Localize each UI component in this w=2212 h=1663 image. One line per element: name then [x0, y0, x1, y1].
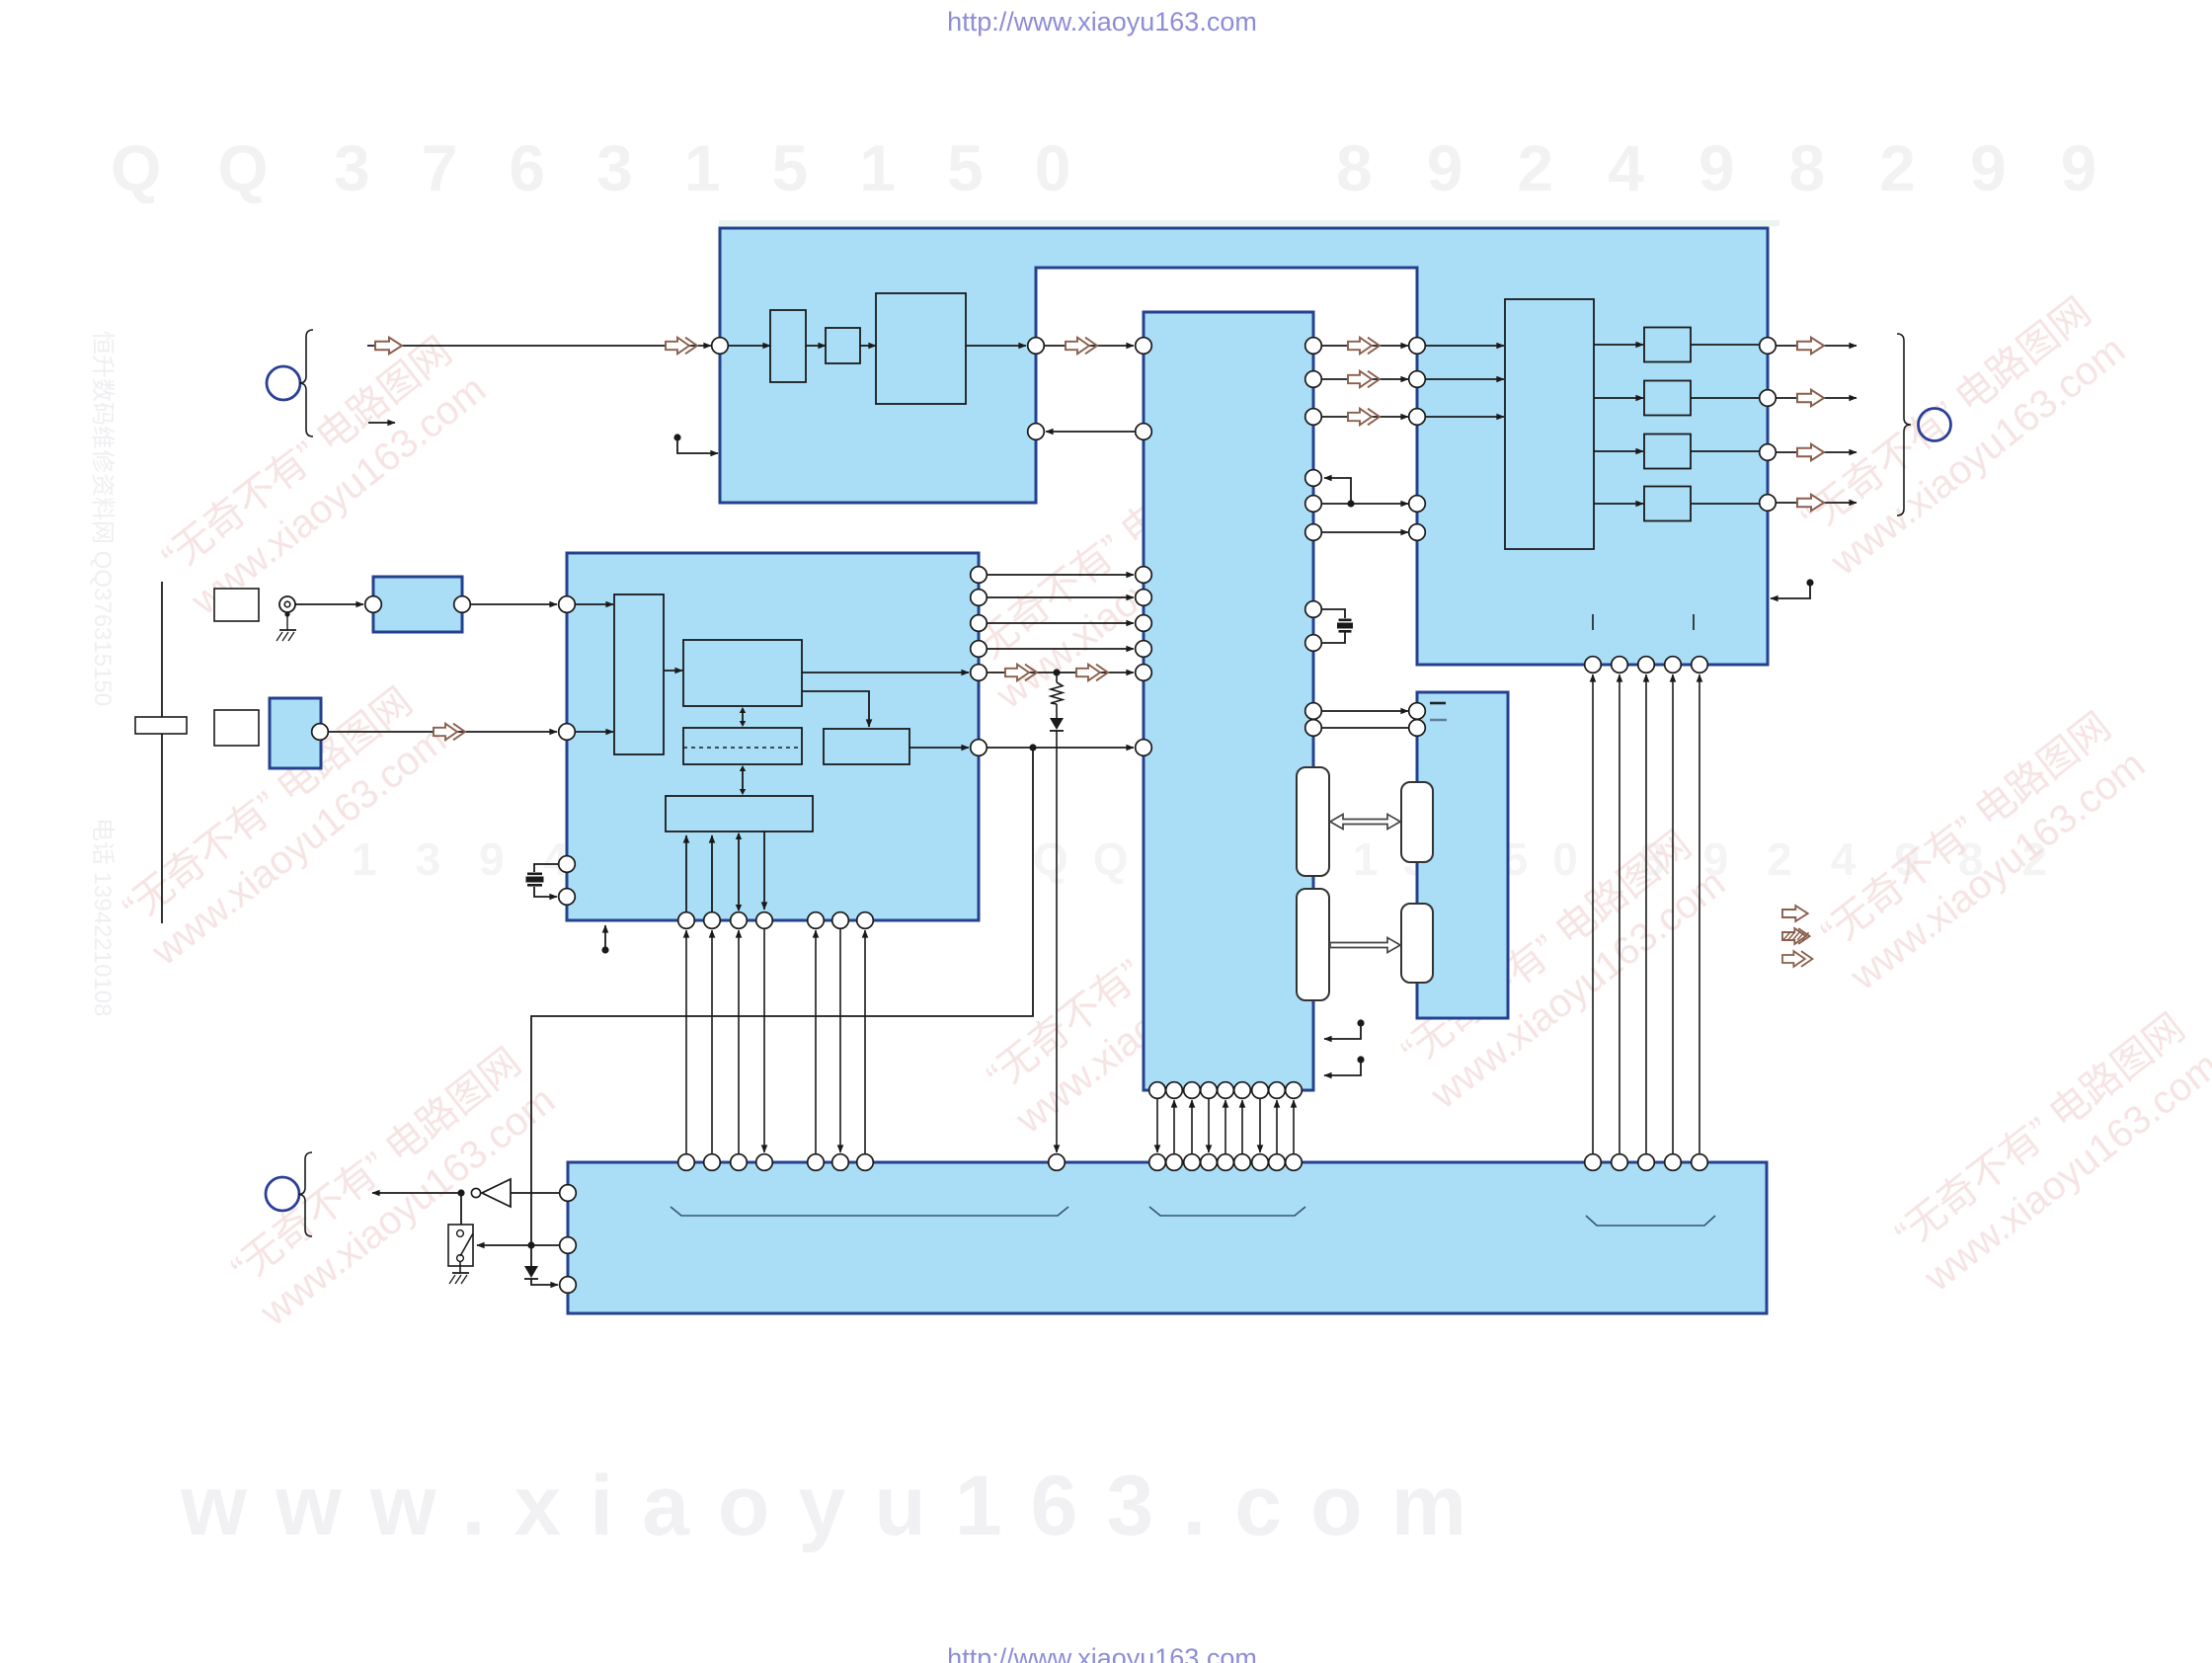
- wire stage3 to U1 output pin: [966, 345, 1026, 347]
- wire U4 to U3 row y422: [1321, 416, 1408, 418]
- pin node (1435,539): [1409, 524, 1426, 541]
- open arrow row y350: [1066, 338, 1097, 355]
- block U5 memory (right of DSP): [1417, 692, 1508, 1018]
- pin node (1224,1104): [1201, 1082, 1218, 1099]
- pin node (1330,617): [1305, 601, 1322, 618]
- bus line U4-U6 col x1276: [1259, 1099, 1261, 1152]
- pin node (1330,720): [1305, 703, 1322, 720]
- bus line U2-U6 col x826: [815, 930, 817, 1153]
- switch SW1 blade: [460, 1233, 473, 1256]
- wire U4 to U3 row y510: [1321, 503, 1408, 505]
- pin node (1241,1104): [1218, 1082, 1234, 1099]
- U3 internal DAC: [1505, 299, 1594, 549]
- pin node (1435,422): [1409, 409, 1426, 426]
- pin node (1158,757): [1136, 740, 1152, 756]
- pin node (575,1208): [560, 1185, 577, 1202]
- pin node (1694,1177): [1665, 1154, 1682, 1171]
- bus line U4-U6 col x1258: [1241, 1100, 1243, 1153]
- U1 internal stage 3: [876, 293, 966, 404]
- U5 bus pill 2: [1401, 904, 1433, 983]
- bus line U6-U3 col x1613: [1592, 674, 1594, 1153]
- pin node (1790,458): [1760, 444, 1777, 461]
- pin node (1276,1177): [1252, 1154, 1269, 1171]
- wire U4 to U3 row y539: [1321, 531, 1408, 533]
- power node feeding U4 (lower): [1357, 1056, 1364, 1063]
- diode D2: [530, 1245, 532, 1266]
- pin node (851,932): [832, 912, 849, 929]
- pin node (1694,673): [1665, 657, 1682, 673]
- pin node (378,612): [365, 596, 382, 613]
- pin node (991,757): [971, 740, 987, 756]
- wire U3 pin to DAC row y422: [1426, 416, 1504, 418]
- pin node (1640,1177): [1612, 1154, 1628, 1171]
- pin node (991,605): [971, 590, 987, 606]
- pin node (1330,422): [1305, 409, 1322, 426]
- pin node (851,1177): [832, 1154, 849, 1171]
- wire U4 to U5 row y737: [1321, 727, 1409, 729]
- pin node (721,932): [704, 912, 721, 929]
- connector ring P1 to pickup: [267, 366, 300, 400]
- pin node (1189,1104): [1166, 1082, 1183, 1099]
- U3 output buffer 1: [1644, 328, 1691, 362]
- wire DAC to buffer row y457: [1594, 450, 1643, 452]
- bus line U4-U6 col x1172: [1156, 1099, 1158, 1152]
- wire RF input line to U1: [367, 345, 711, 347]
- diode D1 (to U6): [1056, 704, 1058, 718]
- pin node (1276,1104): [1252, 1082, 1269, 1099]
- bus line U4-U6 col x1293: [1276, 1100, 1278, 1153]
- pin node (1790,509): [1760, 495, 1777, 512]
- wire U3 pin to DAC row y350: [1426, 345, 1504, 347]
- brace for connector P1: [299, 330, 313, 436]
- connector ring P2: [1919, 409, 1951, 441]
- wire node to switch: [460, 1193, 462, 1225]
- U5 bus pill 1: [1401, 782, 1433, 862]
- block U1 RF amp + servo (top-left) merged with U3 video/audio out (top-right) - L-bridge shape: [720, 228, 1768, 665]
- pale green highlight band above top block: [719, 220, 1779, 226]
- pin node (575,1301): [560, 1277, 577, 1294]
- crystal Y1 wiring bottom: [534, 887, 557, 897]
- RCA jack ground junction: [284, 611, 289, 616]
- audio/video output line y458: [1777, 451, 1856, 453]
- pin node (695,932): [678, 912, 695, 929]
- bus line U2-U6 col x851: [839, 929, 841, 1152]
- inverter U7 triangle: [482, 1179, 511, 1207]
- pin node (991,582): [971, 567, 987, 584]
- power feed node for U3: [1806, 579, 1813, 586]
- pin node (1435,510): [1409, 496, 1426, 513]
- wire RCA to ground: [286, 614, 288, 630]
- watermark pink rotated stamps: [112, 287, 2212, 1335]
- bus RAM-port vertical double arrow: [742, 767, 744, 793]
- pin node (1310,1104): [1286, 1082, 1303, 1099]
- junction node row510: [1347, 500, 1354, 507]
- pin node (1258,1177): [1234, 1154, 1251, 1171]
- wire U2 to U4 row y681 with open arrows: [987, 672, 1134, 673]
- wire inverter output to P3: [372, 1192, 459, 1194]
- crystal Y1 body: [527, 873, 542, 876]
- pin node (1330,651): [1305, 635, 1322, 652]
- bus line U2-U6 col x695: [685, 930, 687, 1153]
- wire DAC to buffer row y510: [1594, 503, 1643, 505]
- pin node (574,612): [559, 596, 576, 613]
- wire port block to pin col695: [685, 835, 687, 911]
- wire U2 to U4 row y757: [987, 747, 1134, 749]
- pin node (1158,605): [1136, 590, 1152, 606]
- chassis ground symbol GND2: [452, 1272, 469, 1274]
- pin node (1158,437): [1136, 424, 1152, 440]
- pin node (1330,510): [1305, 496, 1322, 513]
- open arrow output y509: [1797, 495, 1824, 512]
- bus line U6-U3 col x1640: [1619, 674, 1620, 1153]
- wire U2 to U4 row y605: [987, 596, 1134, 598]
- wire U2 pin in1 to register: [576, 603, 613, 605]
- U1 internal stage 1: [770, 310, 806, 382]
- svg-text:www.xiaoyu163.com: www.xiaoyu163.com: [180, 1459, 1495, 1553]
- pin node (1330,384): [1305, 371, 1322, 388]
- pin node (1293,1177): [1269, 1154, 1286, 1171]
- pin node (721,1177): [704, 1154, 721, 1171]
- U4 bus pill 1: [1297, 767, 1329, 876]
- pin node (1207,1177): [1184, 1154, 1201, 1171]
- pin node (1158,582): [1136, 567, 1152, 584]
- legend arrow type 3 chevron: [1782, 951, 1812, 967]
- block X1 input filter box: [373, 577, 462, 632]
- watermark top gray row QQ digits: [111, 131, 2151, 204]
- wire diode to U6 top pin: [1056, 731, 1058, 1152]
- bus line U6-U3 col x1667: [1645, 674, 1647, 1153]
- watermark left vertical gray text: [89, 331, 116, 1017]
- pin node (1435,384): [1409, 371, 1426, 388]
- pin node (324,741): [312, 724, 329, 741]
- pin node (1293,1104): [1269, 1082, 1286, 1099]
- pin node (1330,539): [1305, 524, 1322, 541]
- bus line U4-U6 col x1310: [1293, 1100, 1295, 1153]
- bus CPU-RAM vertical double arrow: [742, 709, 744, 725]
- pin node (876,1177): [857, 1154, 874, 1171]
- pin node (774,932): [756, 912, 773, 929]
- pin node (1435,737): [1409, 720, 1426, 737]
- pin node (1189,1177): [1166, 1154, 1183, 1171]
- pin node (1667,673): [1638, 657, 1655, 673]
- tick mark above U3 bottom pin group left: [1592, 614, 1594, 630]
- wire port block to pin col721: [711, 835, 713, 911]
- bus line U6-U3 col x1694: [1672, 674, 1674, 1153]
- block U4 DSP / decoder (center tall): [1144, 312, 1313, 1090]
- crystal Y2 wiring bottom: [1322, 633, 1345, 644]
- bus line U2-U6 col x774: [763, 929, 765, 1152]
- U2 internal CPU core: [683, 640, 802, 706]
- bus line U4-U6 col x1241: [1224, 1100, 1226, 1153]
- audio/video output line y403: [1777, 397, 1856, 399]
- pin node (1158,631): [1136, 615, 1152, 632]
- svg-text:892498299: 892498299: [1336, 131, 2151, 204]
- pin node (1172,1104): [1149, 1082, 1166, 1099]
- bus line U4-U6 col x1207: [1191, 1100, 1193, 1153]
- pin node (991,681): [971, 665, 987, 681]
- U2 power stub at bottom-left: [604, 925, 606, 950]
- wire X1 to U2 pin: [471, 603, 557, 605]
- U6 group bracket 2: [1149, 1207, 1305, 1216]
- wire U4 to U1 return (row y437): [1046, 431, 1151, 433]
- pin node (1613,1177): [1585, 1154, 1602, 1171]
- wire buffer to U3 out pin row y510: [1691, 503, 1759, 505]
- pin node (575,1261): [560, 1237, 577, 1254]
- U2 internal RAM with partition: [683, 728, 802, 764]
- bus line U6-U3 col x1721: [1698, 674, 1700, 1153]
- pin node (876,932): [857, 912, 874, 929]
- U6 group bracket 3: [1586, 1216, 1715, 1226]
- short stub arrow from P1: [368, 422, 395, 424]
- brace for output connector P2: [1897, 334, 1911, 515]
- U1 internal stage 2: [826, 328, 860, 363]
- power feed node for U1: [673, 434, 680, 440]
- chassis ground symbol GND1: [279, 629, 296, 631]
- tick mark above U3 bottom pin group right: [1693, 614, 1695, 630]
- U3 output buffer 4: [1644, 487, 1691, 521]
- wire buffer to U3 out pin row y349: [1691, 344, 1759, 346]
- pin node (1158,681): [1136, 665, 1152, 681]
- wire U2 pin in2 to register: [576, 731, 613, 733]
- disc spindle shaft line: [161, 582, 163, 923]
- pin node (695,1177): [678, 1154, 695, 1171]
- svg-text:恒升数码维修资料网 QQ376315150: 恒升数码维修资料网 QQ376315150: [89, 331, 116, 706]
- wire port block to pin col748 (bidir): [738, 833, 740, 911]
- wire U1 pin1 to stage1: [729, 345, 770, 347]
- U3 output buffer 3: [1644, 435, 1691, 469]
- pin node (1049,350): [1028, 338, 1045, 355]
- block U2 system control MCU (left-middle): [567, 553, 979, 920]
- wire buffer to U3 out pin row y457: [1691, 450, 1759, 452]
- pin node (1667,1177): [1638, 1154, 1655, 1171]
- wire U6 pin1 to inverter: [511, 1192, 559, 1194]
- pin node (1241,1177): [1218, 1154, 1234, 1171]
- open arrow RF in: [375, 338, 402, 355]
- pin node (1435,720): [1409, 703, 1426, 720]
- U4 bus pill 2: [1297, 889, 1329, 1000]
- pin node (1172,1177): [1149, 1154, 1166, 1171]
- bus single open arrow U4-U5: [1330, 938, 1400, 953]
- pin node (748,1177): [731, 1154, 748, 1171]
- U2 internal input register: [614, 594, 664, 754]
- legend arrow type 2 hatched: [1782, 928, 1810, 944]
- wire return into U4 pin y484: [1324, 478, 1351, 504]
- crystal Y2 wiring top: [1322, 609, 1345, 618]
- RCA jack J1 center pin: [284, 601, 290, 607]
- wire DAC to buffer row y349: [1594, 344, 1643, 346]
- pin node (1330,350): [1305, 338, 1322, 355]
- pin node (1613,673): [1585, 657, 1602, 673]
- wire X2 to U2 pin: [329, 731, 557, 733]
- U5 label dash dark: [1430, 702, 1446, 705]
- pin node (748,932): [731, 912, 748, 929]
- crystal Y2 body: [1339, 619, 1352, 622]
- wire U1 out to U4 in (row y350): [1045, 345, 1134, 347]
- pin node (729,350): [712, 338, 729, 355]
- brace for connector P3: [298, 1152, 312, 1236]
- wire U4 to U3 row y384: [1321, 378, 1408, 380]
- open arrow output y403: [1797, 390, 1824, 407]
- pin node (1158,657): [1136, 641, 1152, 658]
- wire U4 to U3 row y350: [1321, 345, 1408, 347]
- pin node (774,1177): [756, 1154, 773, 1171]
- wire CPU core to PLL elbow: [802, 691, 869, 727]
- crystal Y1 wiring top: [534, 864, 558, 872]
- switch SW1 body: [448, 1225, 473, 1266]
- wire port block to pin col774 (down): [763, 831, 765, 910]
- pin node (1158,350): [1136, 338, 1152, 355]
- wire U4 to U5 row y720: [1321, 710, 1408, 712]
- U5 label dash blue: [1430, 719, 1447, 722]
- pin node (1640,673): [1612, 657, 1628, 673]
- junction node at switch tee: [527, 1241, 534, 1248]
- junction node inverter output: [457, 1189, 464, 1196]
- white label box CN1: [214, 589, 259, 621]
- bus line U2-U6 col x721: [711, 930, 713, 1153]
- disc platter rectangle: [135, 717, 187, 734]
- pin node (574,741): [559, 724, 576, 741]
- pin node (1207,1104): [1184, 1082, 1201, 1099]
- resistor R1: [1056, 673, 1058, 682]
- wire diode D2 to U6 pin3: [531, 1279, 558, 1285]
- pin node (574,875): [559, 856, 576, 873]
- pin node (991,631): [971, 615, 987, 632]
- U6 group bracket 1: [671, 1207, 1068, 1216]
- pin node (1049,437): [1028, 424, 1045, 440]
- open arrow output y458: [1797, 444, 1824, 461]
- U3 output buffer 2: [1644, 381, 1691, 416]
- bus line U2-U6 col x748: [738, 930, 740, 1153]
- open arrow RF before U1: [666, 338, 697, 355]
- pin node (1224,1177): [1201, 1154, 1218, 1171]
- watermark middle gray digits row: [352, 833, 2086, 885]
- U2 internal PLL block: [824, 729, 909, 764]
- inverter U7 bubble: [471, 1188, 480, 1197]
- wire stage1 to stage2: [806, 345, 826, 347]
- pin node (991,657): [971, 641, 987, 658]
- RCA jack J1 outer ring: [279, 596, 295, 612]
- bus line U4-U6 col x1189: [1173, 1100, 1175, 1153]
- wire CPU core to U2 out pin y681: [802, 672, 969, 673]
- svg-text:http://www.xiaoyu163.com: http://www.xiaoyu163.com: [947, 7, 1257, 37]
- pin node (1790,350): [1760, 338, 1777, 355]
- svg-text:http://www.xiaoyu163.com: http://www.xiaoyu163.com: [947, 1643, 1257, 1663]
- block X2 sensor box: [270, 698, 321, 768]
- U2 internal port block: [666, 796, 813, 831]
- junction node on y757 line: [1029, 744, 1036, 751]
- block U6 power supply (bottom): [568, 1162, 1767, 1313]
- wire PLL to U2 out pin y757: [909, 747, 969, 749]
- wire U2 to U4 row y631: [987, 622, 1134, 624]
- junction node on y681 line: [1053, 669, 1060, 675]
- connector ring P3 power: [266, 1177, 299, 1211]
- pin node (468,612): [454, 596, 471, 613]
- wire stage2 to stage3: [860, 345, 876, 347]
- wire branch from node757 down-left to switch area: [531, 748, 1033, 1245]
- pin node (826,932): [808, 912, 825, 929]
- wire buffer to U3 out pin row y403: [1691, 397, 1759, 399]
- wire switch to ground: [459, 1261, 461, 1273]
- power node feeding U4 (upper): [1357, 1019, 1364, 1026]
- white label box CN2: [214, 710, 259, 746]
- pin node (1721,1177): [1692, 1154, 1708, 1171]
- pin node (1070,1177): [1049, 1154, 1066, 1171]
- pin node (1330,737): [1305, 720, 1322, 737]
- pin node (1721,673): [1692, 657, 1708, 673]
- pin node (1258,1104): [1234, 1082, 1251, 1099]
- pin node (1790,403): [1760, 390, 1777, 407]
- bus double open arrow U4-U5: [1330, 815, 1400, 830]
- bus line U4-U6 col x1224: [1208, 1099, 1210, 1152]
- wire RCA to X1: [295, 603, 363, 605]
- svg-text:电话 13942210108: 电话 13942210108: [89, 818, 116, 1017]
- open arrow output y350: [1797, 338, 1824, 355]
- wire U6 pin2 to switch: [477, 1244, 559, 1246]
- wire U3 pin to DAC row y384: [1426, 378, 1504, 380]
- svg-text:376315150: 376315150: [334, 131, 1122, 204]
- pin node (574,908): [559, 889, 576, 906]
- pin node (1330,484): [1305, 470, 1322, 487]
- open arrow X2 line: [434, 724, 465, 741]
- wire U2 to U4 row y582: [987, 574, 1134, 576]
- pin node (826,1177): [808, 1154, 825, 1171]
- pin node (1310,1177): [1286, 1154, 1303, 1171]
- pin node (1435,350): [1409, 338, 1426, 355]
- wire DAC to buffer row y403: [1594, 397, 1643, 399]
- audio/video output line y509: [1777, 502, 1856, 504]
- audio/video output line y350: [1777, 345, 1856, 347]
- svg-text:QQ: QQ: [111, 131, 325, 204]
- wire register to CPU core: [664, 670, 682, 672]
- wire U2 to U4 row y657: [987, 648, 1134, 650]
- bus line U2-U6 col x876: [864, 930, 866, 1153]
- legend arrow type 1 plain: [1782, 906, 1808, 921]
